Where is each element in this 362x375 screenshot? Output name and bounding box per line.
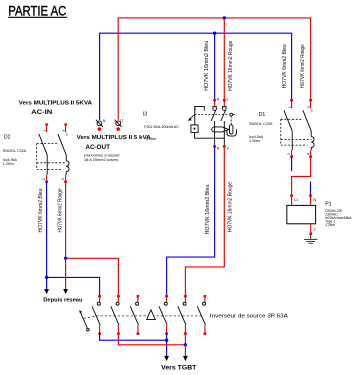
wire red pole5 stub (184, 334, 186, 345)
differential switch I3 (188, 98, 237, 151)
svg-text:Vers MULTIPLUS II 5 kVA: Vers MULTIPLUS II 5 kVA (77, 135, 151, 141)
arrow TGBT blue (164, 356, 169, 361)
relay box I3 (191, 125, 198, 132)
svg-text:HO7VK 16mm2 Rouge: HO7VK 16mm2 Rouge (228, 41, 234, 91)
pole line I3 N (214, 121, 216, 145)
test resistor capsule I3 (229, 125, 233, 134)
wire blue to transfer switch pole1 (47, 277, 100, 295)
wire blue stub to P1 N (310, 182, 312, 196)
svg-text:P1: P1 (325, 202, 331, 208)
pin stub D2 top right (65, 126, 67, 132)
linkage circle I3 (230, 113, 233, 116)
svg-text:3: 3 (61, 130, 65, 132)
transfer switch: linkage dashed (84, 316, 96, 318)
link triangle (147, 310, 156, 320)
wire blue AC-OUT bus (horizontal top) (100, 33, 292, 120)
arrow depuis reseau red (63, 289, 68, 294)
svg-text:1.2Nm: 1.2Nm (325, 223, 335, 227)
svg-text:N: N (313, 197, 316, 202)
svg-text:PARTIE AC: PARTIE AC (8, 3, 66, 18)
switch pole 4 (159, 295, 168, 335)
wire red D2 down to network (65, 182, 67, 258)
svg-text:AC-IN: AC-IN (31, 109, 53, 116)
node terminal D1 pin3 (309, 99, 312, 102)
wire blue to arrow TGBT (166, 340, 168, 356)
svg-text:1.2Nm: 1.2Nm (3, 162, 14, 166)
wire red drop to I3 L (223, 18, 225, 100)
wire blue drop to I3 N (214, 33, 216, 100)
terminal square P1 T (309, 232, 312, 235)
node terminal AC-OUT N (98, 127, 102, 131)
svg-text:2: 2 (42, 178, 46, 180)
blade D2 pole 1 (39, 134, 47, 175)
wire blue I3 down to pole4 (167, 146, 215, 295)
pin stub I3 top 1 (223, 102, 225, 107)
wire blue stub to arrow (46, 277, 48, 289)
switch pole 1 (92, 295, 101, 335)
pole line I3 L (223, 121, 225, 145)
trip arrow I3 (188, 115, 195, 121)
node terminal D2 pin4 (64, 180, 67, 183)
switch pole 2 (111, 295, 120, 335)
actuator handle (79, 310, 89, 331)
svg-text:SN201L C20A: SN201L C20A (249, 122, 273, 126)
blade I3 N (211, 110, 216, 121)
pin stub P1 T (310, 224, 312, 233)
test wire I3 (195, 132, 225, 138)
svg-text:2.8Nm: 2.8Nm (146, 137, 156, 141)
relay wire down I3 (194, 106, 196, 125)
node terminal D1 pin2 (290, 155, 293, 158)
wire blue pole4 stub (166, 334, 168, 341)
node junction blue depuis reseau (45, 276, 48, 279)
surge protector P1 (287, 194, 318, 243)
svg-text:1.2Nm: 1.2Nm (249, 139, 260, 143)
node terminal I3 bottom 2 (223, 145, 226, 148)
svg-text:x: x (311, 109, 313, 113)
toroid I3 (212, 127, 229, 132)
pin stub D2 bottom right (65, 175, 67, 181)
svg-text:HO7VK 6mm2 Bleu: HO7VK 6mm2 Bleu (38, 188, 44, 232)
svg-text:2: 2 (227, 146, 229, 150)
svg-text:D2: D2 (4, 135, 11, 141)
blade D1 pole 2 (303, 110, 311, 136)
sensor bracket I3 (195, 106, 205, 111)
pin stub D1 top right (310, 102, 312, 109)
svg-text:2: 2 (287, 153, 291, 155)
pin stub D2 top left (46, 126, 48, 132)
node junction blue TGBT (165, 339, 168, 342)
pin stub P1 L1 (291, 197, 293, 206)
contact circle I3 L (222, 106, 226, 111)
wire red I3 down to pole5 (185, 146, 224, 295)
svg-text:F202 63A-300mA AC: F202 63A-300mA AC (144, 125, 179, 129)
pin stub D1 top left (291, 102, 293, 109)
svg-text:N: N (217, 98, 220, 102)
pin stub P1 N (310, 197, 312, 206)
trip unit dashed box D1 (281, 119, 311, 145)
body box P1 (287, 205, 316, 223)
pin stub D2 bottom left (46, 175, 48, 181)
svg-text:HO7VK 6mm2 Rouge: HO7VK 6mm2 Rouge (300, 44, 306, 88)
wire red stub to arrow (65, 258, 67, 289)
wire red to arrow TGBT (184, 345, 186, 356)
node terminal D1 pin1 (290, 99, 293, 102)
arrow TGBT red (183, 356, 188, 361)
blade D1 pole 1 (284, 110, 292, 150)
wire blue TGBT bus (100, 334, 167, 341)
node terminal I3 top N (213, 99, 216, 102)
svg-text:Vers TGBT: Vers TGBT (161, 366, 197, 372)
svg-text:L1: L1 (120, 118, 124, 122)
contact circle I3 N (213, 106, 217, 111)
pin stub D1 bottom left (291, 150, 293, 156)
node terminal D2 pin2 (45, 180, 48, 183)
breaker D2 (37, 123, 69, 183)
dashed drop to test resistor (230, 116, 232, 124)
svg-text:4: 4 (307, 153, 311, 155)
pin stub I3 top N (214, 102, 216, 107)
thermal element D2 (66, 161, 69, 175)
linkage dashed I3 (195, 114, 229, 116)
wire red D1 to P1 L1 (292, 157, 311, 196)
wire blue D1 down stub (291, 157, 293, 172)
svg-text:1: 1 (42, 130, 46, 132)
wire red AC-OUT bus (horizontal top) (118, 18, 310, 120)
blade I3 L (221, 110, 226, 121)
terminal square D2 pin1 (45, 123, 48, 126)
node junction red depuis reseau (64, 257, 67, 260)
trip unit dashed box D2 (37, 144, 66, 170)
svg-text:3: 3 (306, 106, 310, 108)
switch pole 3 (130, 295, 139, 335)
node terminal P1 N (309, 194, 312, 197)
svg-text:16 à 25mm2 cuivre): 16 à 25mm2 cuivre) (84, 157, 119, 162)
switch pole 6 (197, 295, 206, 335)
node terminal P1 L1 (290, 194, 293, 197)
svg-text:1: 1 (227, 98, 229, 102)
svg-text:HO7VK 16mm2 Bleu: HO7VK 16mm2 Bleu (204, 41, 210, 91)
svg-text:Depuis réseau: Depuis réseau (43, 298, 83, 304)
svg-text:HO7VK 16mm2 Bleu: HO7VK 16mm2 Bleu (205, 184, 211, 234)
svg-text:4: 4 (61, 178, 65, 180)
svg-text:HO7VK 16mm2 Rouge: HO7VK 16mm2 Rouge (228, 182, 234, 232)
svg-text:HO7VK 6mm2 Rouge: HO7VK 6mm2 Rouge (57, 188, 63, 232)
node junction red TGBT (184, 343, 187, 346)
wire blue D2 down to network (46, 182, 48, 278)
node terminal I3 top 1 (223, 99, 226, 102)
connector L1 (AC-OUT) circle+slash (115, 120, 122, 127)
switch pole 5 (178, 295, 187, 335)
svg-text:HO7VK 6mm2 Bleu: HO7VK 6mm2 Bleu (282, 44, 288, 88)
svg-text:D1: D1 (259, 112, 266, 118)
svg-text:1: 1 (287, 106, 291, 108)
svg-text:N: N (217, 146, 220, 150)
blade D2 pole 2 (58, 134, 66, 161)
wire red to transfer switch pole2 (66, 258, 119, 295)
pin stub D1 bottom right (310, 150, 312, 156)
node terminal D1 pin4 (309, 155, 312, 158)
svg-text:x: x (66, 133, 68, 137)
title PARTIE AC (8, 3, 67, 18)
linkage dash right (233, 114, 236, 116)
svg-text:AC-OUT: AC-OUT (85, 144, 110, 151)
svg-text:Inverseur de source 3P 63A: Inverseur de source 3P 63A (210, 313, 288, 319)
test loop wire I3 (227, 129, 237, 136)
wire red TGBT bus (118, 334, 185, 345)
relay dot I3 (194, 128, 196, 130)
connector N (AC-OUT) circle+slash (96, 120, 103, 127)
svg-text:SN201L C32A: SN201L C32A (3, 149, 27, 153)
svg-text:Vers MULTIPLUS II 5KVA: Vers MULTIPLUS II 5KVA (19, 100, 93, 106)
thermal element D1 (311, 137, 314, 151)
svg-text:N: N (103, 119, 106, 123)
arrow depuis reseau blue (44, 289, 49, 294)
node terminal AC-OUT L1 (116, 127, 120, 131)
svg-text:L1: L1 (294, 197, 299, 202)
terminal square D2 pin3 (64, 123, 67, 126)
svg-text:I3: I3 (143, 111, 147, 117)
ground symbol (304, 235, 318, 243)
node junction blue bus (213, 32, 216, 35)
breaker D1 (281, 99, 314, 158)
node junction red bus (223, 16, 226, 19)
node terminal I3 bottom N (213, 145, 216, 148)
